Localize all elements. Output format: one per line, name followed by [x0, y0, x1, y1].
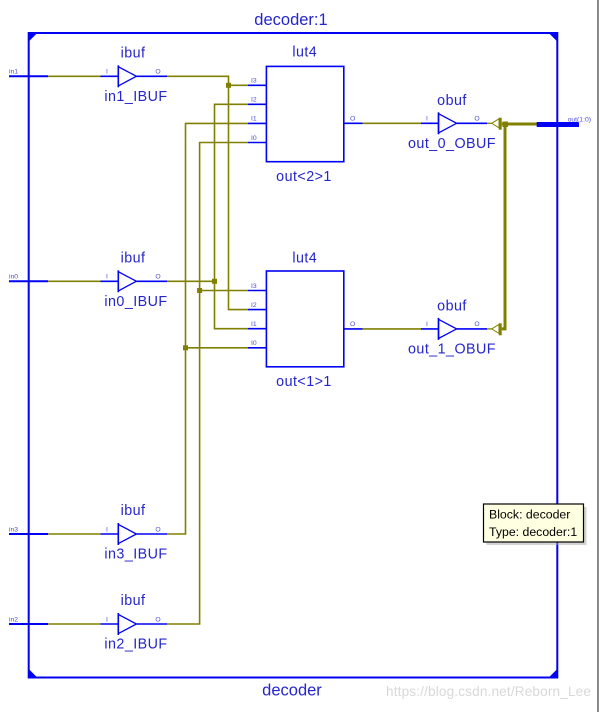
wire net in3_IBUF out: [167, 123, 248, 534]
svg-text:ibuf: ibuf: [121, 251, 146, 267]
svg-text:O: O: [155, 526, 160, 533]
svg-text:out(1:0): out(1:0): [568, 116, 591, 123]
svg-text:Type: decoder:1: Type: decoder:1: [489, 525, 577, 539]
window edge line: [597, 0, 599, 712]
svg-text:lut4: lut4: [292, 250, 317, 266]
svg-text:in2: in2: [9, 616, 18, 623]
svg-text:in0_IBUF: in0_IBUF: [104, 294, 167, 310]
svg-text:I: I: [106, 69, 108, 76]
title decoder:1: [254, 11, 327, 29]
svg-text:I3: I3: [251, 283, 257, 290]
port in2: [9, 616, 48, 624]
port out(1:0): [537, 116, 591, 127]
svg-text:decoder:1: decoder:1: [254, 11, 327, 29]
bus tap out1: [492, 323, 502, 335]
junction in0_IBUF: [212, 279, 217, 284]
bus tap out0: [492, 118, 502, 130]
buffer ibuf in1_IBUF: [101, 46, 168, 105]
svg-text:I3: I3: [251, 78, 257, 85]
svg-text:I2: I2: [251, 302, 257, 309]
wire net in0_IBUF out: [167, 104, 248, 328]
wire net in2_IBUF out: [167, 143, 248, 625]
svg-text:Block: decoder: Block: decoder: [489, 507, 570, 521]
svg-text:I: I: [426, 321, 428, 328]
wire net obuf2 to tap: [487, 328, 492, 330]
svg-text:O: O: [155, 616, 160, 623]
svg-text:I0: I0: [251, 135, 257, 142]
svg-text:https://blog.csdn.net/Reborn_L: https://blog.csdn.net/Reborn_Lee: [386, 684, 591, 699]
buffer ibuf in3_IBUF: [101, 503, 168, 562]
svg-text:in0: in0: [9, 274, 18, 281]
svg-text:ibuf: ibuf: [121, 593, 146, 609]
svg-text:I: I: [106, 274, 108, 281]
svg-text:obuf: obuf: [437, 93, 467, 109]
wire net in1_IBUF out: [167, 76, 248, 309]
svg-text:I0: I0: [251, 340, 257, 347]
port in3: [9, 526, 48, 534]
buffer ibuf in2_IBUF: [101, 593, 168, 652]
lut4 out<2>1: [248, 45, 363, 186]
svg-text:I: I: [106, 616, 108, 623]
footer decoder: [262, 682, 322, 700]
junction in1_IBUF/I3: [226, 83, 231, 88]
svg-text:I: I: [426, 116, 428, 123]
svg-text:out<1>1: out<1>1: [276, 374, 332, 390]
svg-text:O: O: [155, 69, 160, 76]
port in1: [9, 69, 48, 77]
svg-text:O: O: [350, 321, 355, 328]
lut4 out<1>1: [248, 250, 363, 390]
svg-text:obuf: obuf: [437, 298, 467, 314]
svg-text:in1: in1: [9, 69, 18, 76]
svg-text:in2_IBUF: in2_IBUF: [104, 637, 167, 653]
svg-text:ibuf: ibuf: [121, 503, 146, 519]
buffer ibuf in0_IBUF: [101, 251, 168, 310]
svg-text:O: O: [474, 321, 479, 328]
junction in3_IBUF/I0: [183, 345, 188, 350]
watermark: [386, 684, 591, 699]
junction bus out: [503, 122, 509, 128]
svg-text:in3_IBUF: in3_IBUF: [104, 547, 167, 563]
svg-text:I1: I1: [251, 321, 257, 328]
svg-text:I1: I1: [251, 116, 257, 123]
svg-text:lut4: lut4: [292, 45, 317, 61]
bus out(1:0): [502, 124, 537, 329]
svg-text:O: O: [474, 116, 479, 123]
svg-text:decoder: decoder: [262, 682, 322, 700]
svg-text:I: I: [106, 526, 108, 533]
buffer obuf out_1_OBUF: [408, 298, 496, 357]
svg-text:ibuf: ibuf: [121, 46, 146, 62]
wire net obuf1 to tap: [487, 122, 492, 124]
svg-text:out_1_OBUF: out_1_OBUF: [408, 342, 496, 358]
junction in2_IBUF/I3: [197, 288, 202, 293]
svg-text:out<2>1: out<2>1: [276, 169, 332, 185]
buffer obuf out_0_OBUF: [408, 93, 496, 152]
svg-text:out_0_OBUF: out_0_OBUF: [408, 136, 496, 152]
wire net lut2 O to obuf2: [363, 328, 422, 330]
svg-text:O: O: [350, 116, 355, 123]
wire net in2 input: [48, 623, 101, 625]
svg-text:O: O: [155, 274, 160, 281]
svg-text:in3: in3: [9, 526, 18, 533]
wire net lut1 O to obuf1: [363, 122, 422, 124]
wire net in1 input: [48, 75, 101, 77]
tooltip Block decoder: [484, 504, 587, 545]
wire net in0 input: [48, 280, 101, 282]
port in0: [9, 274, 48, 282]
wire net in3 input: [48, 533, 101, 535]
svg-text:I2: I2: [251, 97, 257, 104]
svg-text:in1_IBUF: in1_IBUF: [104, 89, 167, 105]
